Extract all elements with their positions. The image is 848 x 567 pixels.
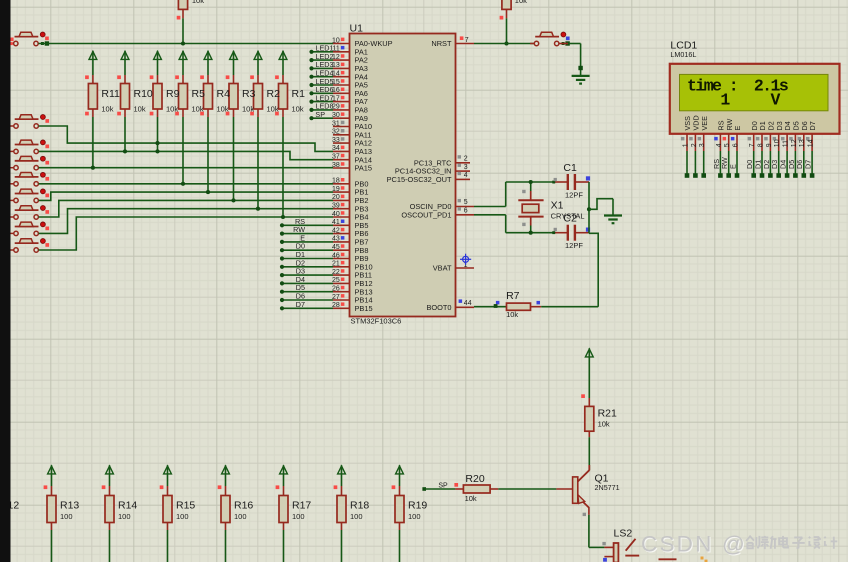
svg-text:R2: R2 <box>267 88 281 100</box>
svg-text:43: 43 <box>332 236 340 243</box>
svg-text:26: 26 <box>332 286 340 293</box>
svg-text:SP: SP <box>438 483 448 490</box>
svg-text:3: 3 <box>699 143 706 147</box>
svg-text:R4: R4 <box>217 88 231 100</box>
svg-text:10k: 10k <box>465 494 477 503</box>
svg-text:R20: R20 <box>465 473 484 485</box>
svg-text:10k: 10k <box>101 105 113 114</box>
svg-text:32: 32 <box>332 129 340 136</box>
svg-text:10k: 10k <box>506 310 518 319</box>
svg-text:38: 38 <box>332 162 340 169</box>
svg-text:E: E <box>728 164 737 169</box>
svg-text:12: 12 <box>791 139 798 147</box>
svg-text:14: 14 <box>332 71 340 78</box>
svg-text:100: 100 <box>60 512 73 521</box>
svg-text:LM016L: LM016L <box>670 50 696 59</box>
svg-text:33: 33 <box>332 137 340 144</box>
svg-text:R1: R1 <box>292 88 306 100</box>
svg-text:10k: 10k <box>267 105 279 114</box>
svg-text:R18: R18 <box>350 500 369 512</box>
svg-text:10: 10 <box>332 37 340 44</box>
svg-text:R19: R19 <box>408 500 427 512</box>
svg-text:31: 31 <box>332 120 340 127</box>
svg-text:10k: 10k <box>242 105 254 114</box>
svg-text:7: 7 <box>749 143 756 147</box>
svg-text:LS2: LS2 <box>614 528 633 540</box>
svg-text:7: 7 <box>465 37 469 44</box>
svg-text:6: 6 <box>464 208 468 215</box>
svg-text:D7: D7 <box>296 300 305 309</box>
svg-text:NRST: NRST <box>431 39 452 48</box>
svg-text:PC15-OSC32_OUT: PC15-OSC32_OUT <box>387 175 452 184</box>
svg-text:C1: C1 <box>563 162 577 174</box>
svg-text:16: 16 <box>332 87 340 94</box>
svg-text:44: 44 <box>464 300 472 307</box>
svg-text:PA15: PA15 <box>355 164 373 173</box>
svg-text:R3: R3 <box>242 88 256 100</box>
svg-text:17: 17 <box>332 95 340 102</box>
svg-text:13: 13 <box>332 62 340 69</box>
svg-text:100: 100 <box>350 512 363 521</box>
svg-text:2N5771: 2N5771 <box>595 483 620 492</box>
svg-text:3: 3 <box>464 164 468 171</box>
svg-text:9: 9 <box>766 143 773 147</box>
svg-text:40: 40 <box>332 211 340 218</box>
svg-text:5: 5 <box>724 143 731 147</box>
svg-text:BOOT0: BOOT0 <box>426 303 451 312</box>
svg-text:VEE: VEE <box>700 116 709 131</box>
svg-text:11: 11 <box>783 140 790 147</box>
svg-text:R5: R5 <box>192 88 206 100</box>
svg-text:12PF: 12PF <box>565 191 583 200</box>
svg-text:10k: 10k <box>192 105 204 114</box>
svg-text:21: 21 <box>332 261 340 268</box>
svg-text:8: 8 <box>757 143 764 147</box>
svg-text:R7: R7 <box>506 290 520 302</box>
svg-text:4: 4 <box>464 172 468 179</box>
svg-text:R17: R17 <box>292 500 311 512</box>
svg-text:100: 100 <box>408 512 421 521</box>
svg-text:D7: D7 <box>804 160 813 169</box>
svg-text:20: 20 <box>332 194 340 201</box>
svg-text:29: 29 <box>332 104 340 111</box>
svg-text:10: 10 <box>774 139 781 147</box>
svg-text:22: 22 <box>332 269 340 276</box>
svg-text:R21: R21 <box>598 407 617 419</box>
svg-text:R13: R13 <box>60 500 79 512</box>
svg-text:2: 2 <box>691 143 698 147</box>
svg-text:100: 100 <box>176 512 189 521</box>
svg-text:STM32F103C6: STM32F103C6 <box>351 317 402 326</box>
svg-text:E: E <box>733 126 742 131</box>
svg-text:R14: R14 <box>118 500 137 512</box>
svg-text:42: 42 <box>332 227 340 234</box>
svg-text:39: 39 <box>332 203 340 210</box>
svg-text:34: 34 <box>332 145 340 152</box>
svg-text:U1: U1 <box>350 23 364 35</box>
svg-text:10k: 10k <box>217 105 229 114</box>
svg-text:PB15: PB15 <box>355 304 373 313</box>
svg-text:R9: R9 <box>166 88 180 100</box>
svg-text:10k: 10k <box>166 105 178 114</box>
svg-text:18: 18 <box>332 178 340 185</box>
svg-text:12PF: 12PF <box>565 241 583 250</box>
svg-text:10k: 10k <box>515 0 527 5</box>
svg-text:R15: R15 <box>176 500 195 512</box>
svg-text:14: 14 <box>808 139 815 147</box>
svg-text:10k: 10k <box>192 0 204 5</box>
svg-text:10k: 10k <box>134 105 146 114</box>
svg-text:28: 28 <box>332 302 340 309</box>
svg-text:25: 25 <box>332 277 340 284</box>
svg-text:19: 19 <box>332 186 340 193</box>
svg-text:11: 11 <box>333 46 340 53</box>
svg-text:10k: 10k <box>292 105 304 114</box>
svg-text:10k: 10k <box>598 419 610 428</box>
svg-text:1: 1 <box>682 143 689 147</box>
svg-text:13: 13 <box>799 139 806 147</box>
svg-text:CSDN @: CSDN @ <box>641 532 747 557</box>
svg-text:27: 27 <box>332 294 340 301</box>
svg-text:X1: X1 <box>551 200 564 212</box>
svg-text:5: 5 <box>464 199 468 206</box>
svg-text:37: 37 <box>332 154 340 161</box>
svg-text:12: 12 <box>332 54 340 61</box>
svg-text:SP: SP <box>315 110 325 119</box>
svg-text:VBAT: VBAT <box>433 264 452 273</box>
svg-text:6: 6 <box>732 143 739 147</box>
svg-text:4: 4 <box>716 143 723 147</box>
svg-text:100: 100 <box>292 512 305 521</box>
svg-text:R16: R16 <box>234 500 253 512</box>
svg-text:C2: C2 <box>563 213 577 225</box>
svg-text:2: 2 <box>464 156 468 163</box>
svg-text:15: 15 <box>332 79 340 86</box>
svg-text:41: 41 <box>332 219 340 226</box>
svg-text:R11: R11 <box>101 88 120 100</box>
svg-text:1 V: 1 V <box>687 91 781 110</box>
svg-text:R10: R10 <box>134 88 153 100</box>
svg-text:OSCOUT_PD1: OSCOUT_PD1 <box>401 210 451 219</box>
svg-text:45: 45 <box>332 244 340 251</box>
svg-text:D7: D7 <box>808 121 817 130</box>
svg-text:46: 46 <box>332 252 340 259</box>
svg-text:100: 100 <box>118 512 131 521</box>
svg-text:30: 30 <box>332 112 340 119</box>
svg-text:100: 100 <box>234 512 247 521</box>
